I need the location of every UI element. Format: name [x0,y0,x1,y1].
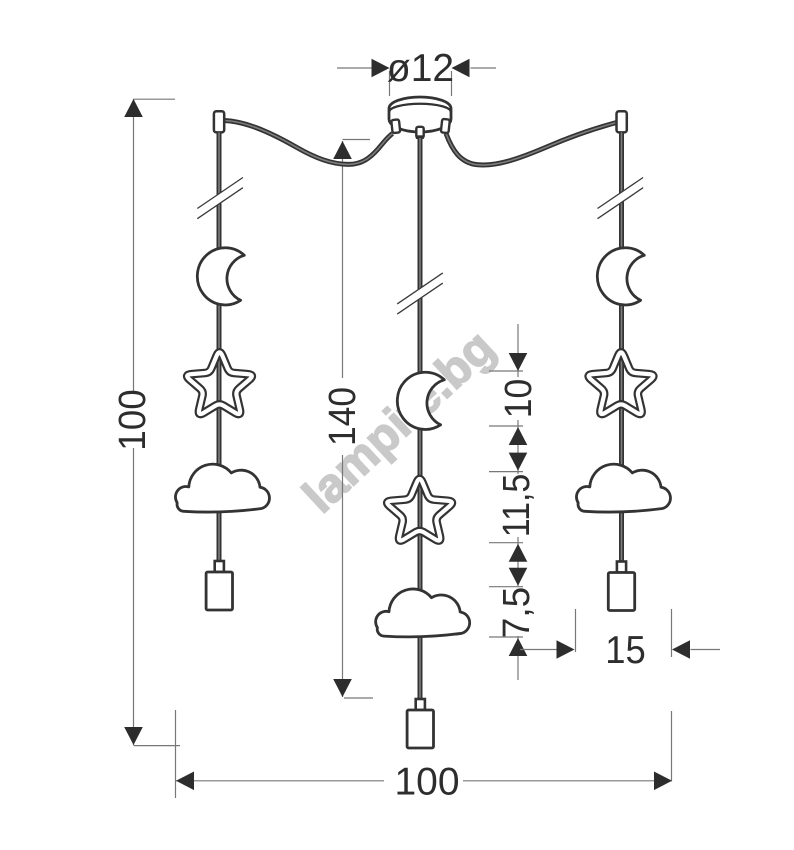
left cord break [197,178,243,219]
right cord break [598,178,644,219]
left star [187,352,252,414]
left cord top connector [214,111,224,132]
left socket [206,561,232,610]
dim line 140 [333,140,373,699]
middle cord break [397,273,443,314]
chain arrows [509,353,528,656]
left moon [197,248,244,305]
right star [589,352,654,414]
svg-text:100: 100 [112,389,154,451]
right cord top connector [617,111,627,132]
right cord [619,132,624,561]
right moon [597,248,644,305]
label 10 [498,379,540,419]
label 7,5 [496,587,538,639]
middle moon [397,372,444,429]
dim line 15 [520,609,720,659]
right cloud [576,464,670,512]
dim line 100 left [124,99,180,746]
label 140 [322,387,364,446]
chain dim lines [489,324,523,680]
left suspension cable [225,121,393,165]
svg-text:140: 140 [322,387,364,446]
svg-text:11,5: 11,5 [496,474,538,538]
dim line bottom 100 [176,710,673,798]
svg-text:100: 100 [394,761,459,804]
middle cloud [376,589,470,637]
left cord [217,132,222,561]
watermark lampite.bg [293,321,505,523]
svg-text:7,5: 7,5 [496,587,538,639]
right suspension cable [446,123,617,166]
canopy connector left [391,119,400,133]
right socket [608,562,634,611]
canopy connector middle [416,127,424,139]
canopy connector right [441,119,450,133]
middle socket [407,699,433,748]
label 100 left [112,389,154,451]
label 11,5 [496,474,538,538]
left cloud [175,464,269,512]
svg-text:10: 10 [498,379,540,419]
svg-text:15: 15 [605,629,646,672]
canopy [389,97,451,132]
dim line dia12 [337,59,496,96]
svg-text:ø12: ø12 [387,47,454,90]
middle cord [418,138,423,699]
middle star [387,479,452,541]
